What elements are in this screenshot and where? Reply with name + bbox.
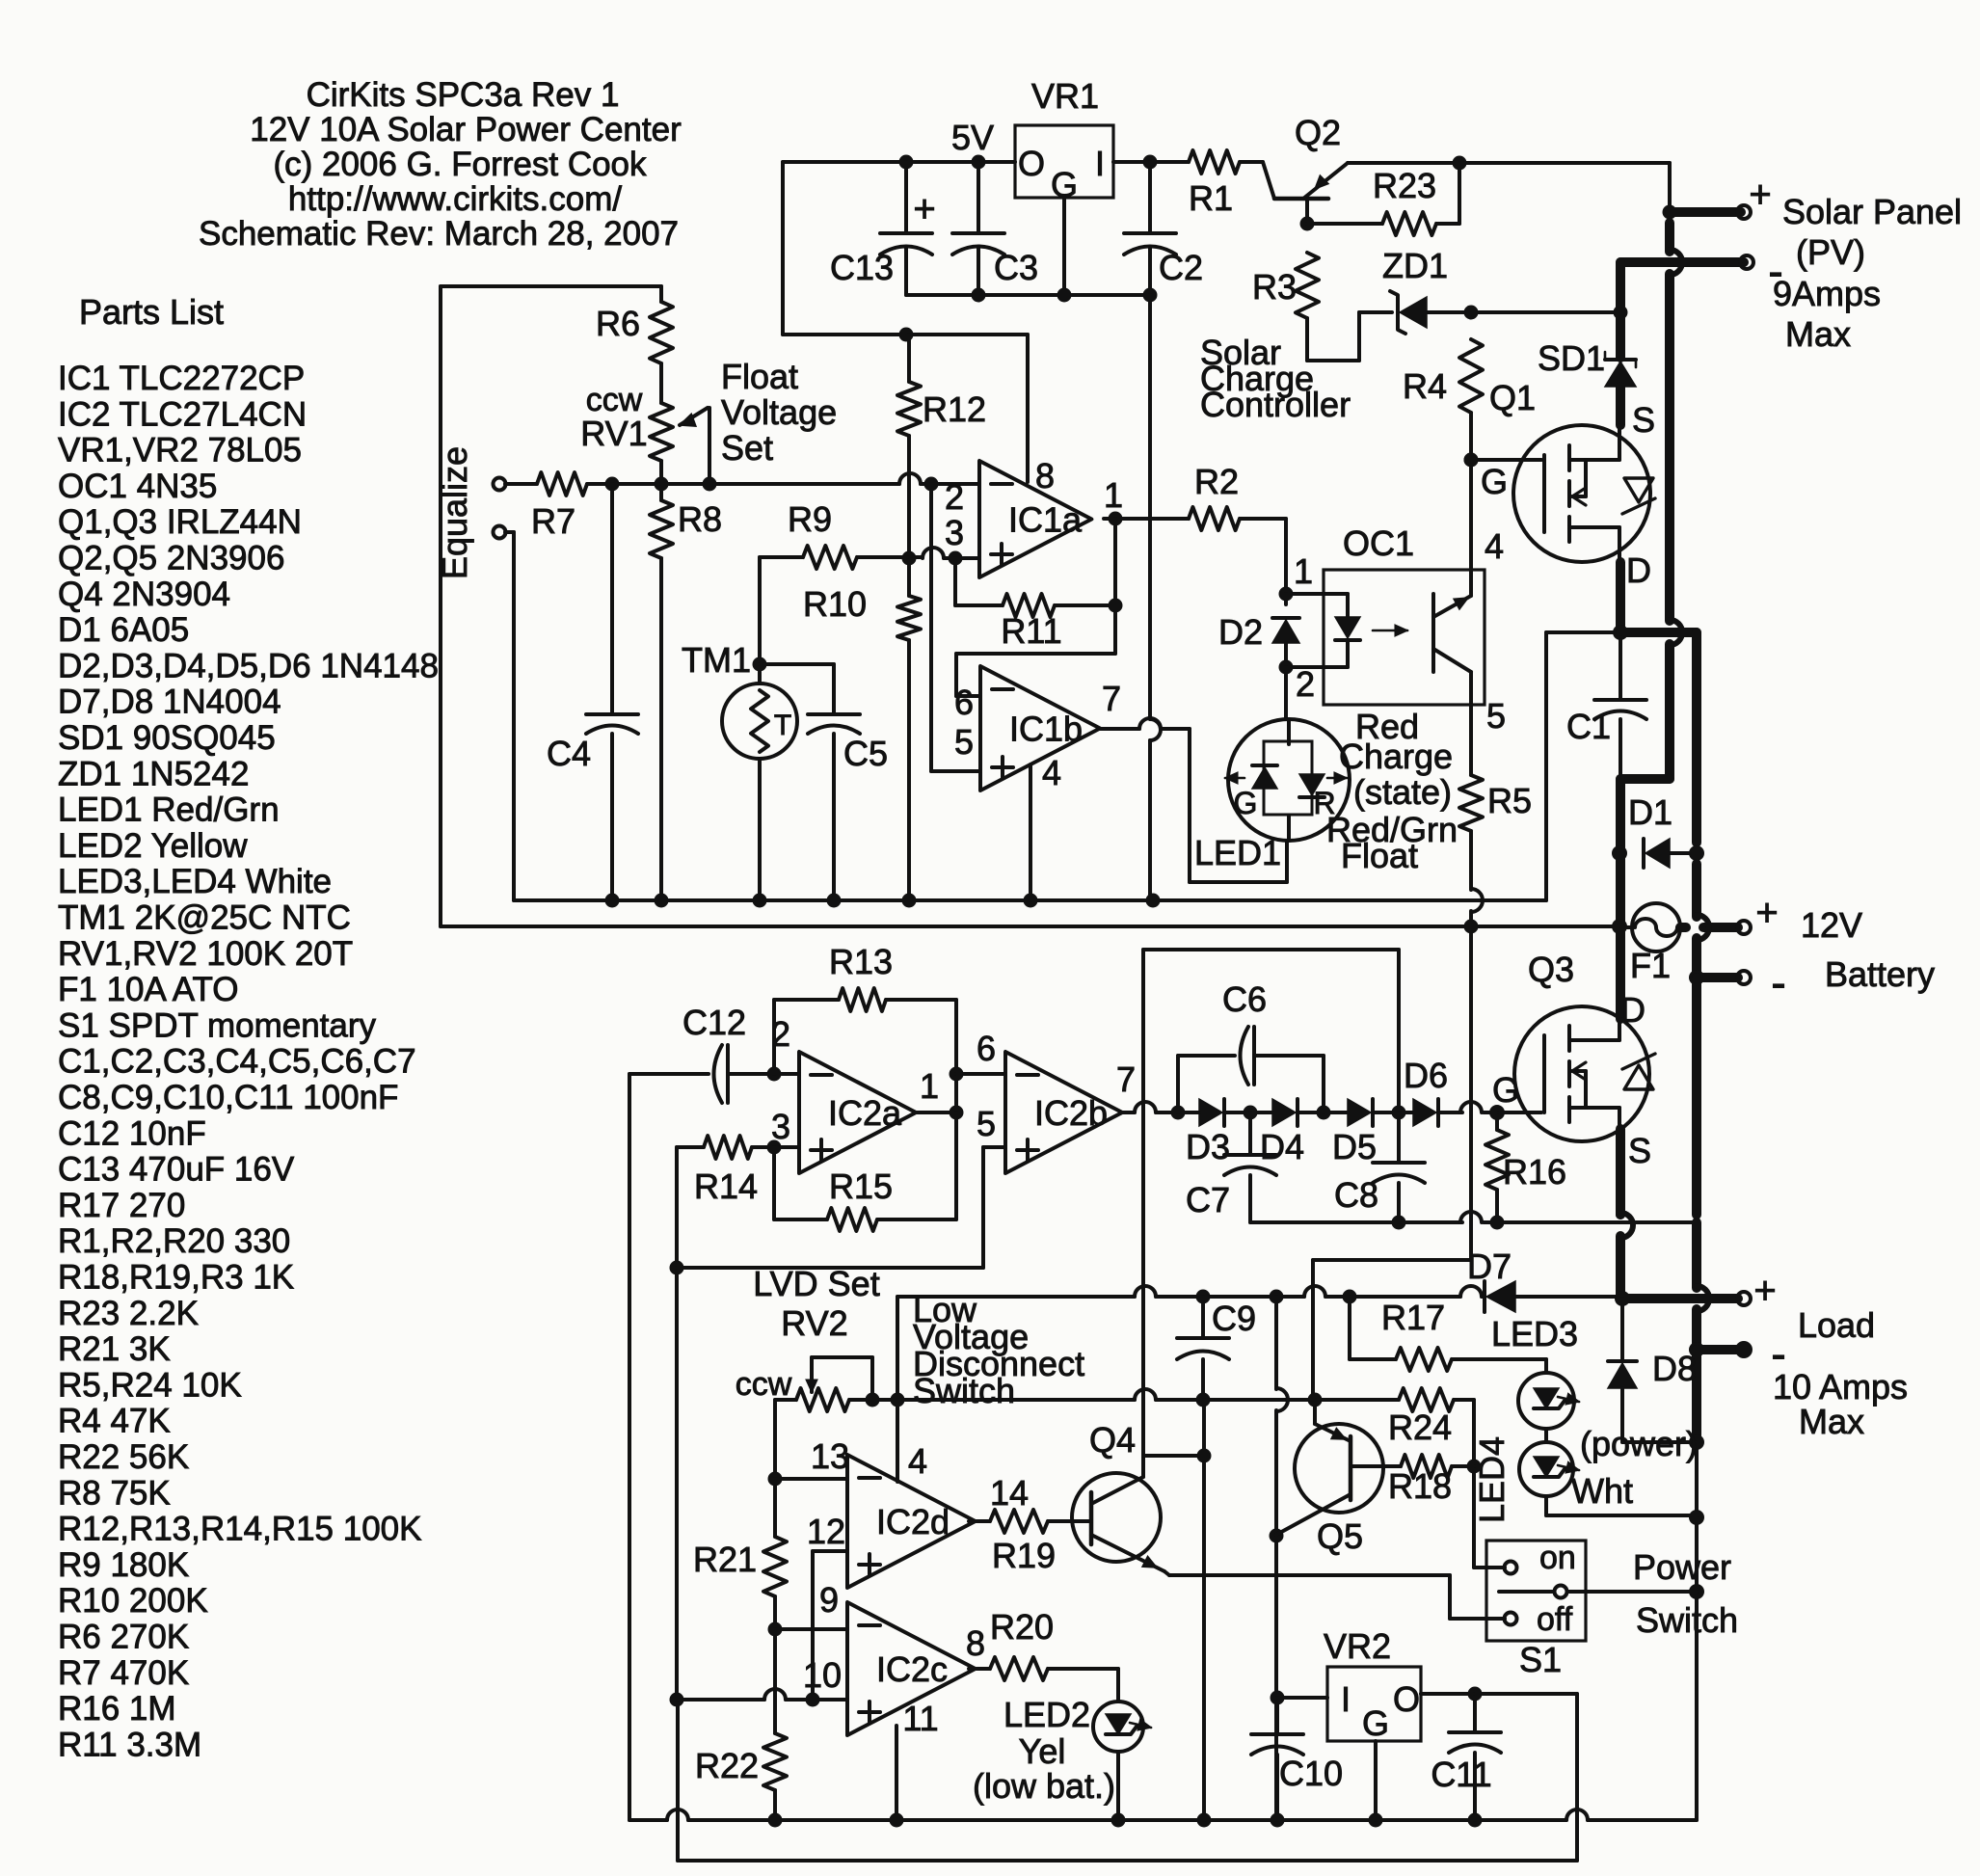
svg-text:(c) 2006 G. Forrest Cook: (c) 2006 G. Forrest Cook <box>273 146 647 183</box>
svg-text:R7 470K: R7 470K <box>58 1654 189 1692</box>
svg-text:http://www.cirkits.com/: http://www.cirkits.com/ <box>288 180 622 218</box>
svg-text:R21: R21 <box>693 1540 757 1579</box>
svg-text:Schematic Rev: March 28, 2007: Schematic Rev: March 28, 2007 <box>199 215 679 253</box>
svg-text:LED3,LED4 White: LED3,LED4 White <box>58 863 332 900</box>
svg-text:+: + <box>1755 892 1778 934</box>
svg-text:F1: F1 <box>1630 946 1671 985</box>
svg-text:VR2: VR2 <box>1324 1626 1391 1666</box>
svg-text:off: off <box>1537 1601 1573 1638</box>
svg-text:F1 10A ATO: F1 10A ATO <box>58 971 238 1008</box>
svg-text:R14: R14 <box>694 1166 758 1206</box>
svg-text:-: - <box>1771 957 1785 1007</box>
svg-text:C7: C7 <box>1186 1180 1230 1219</box>
svg-text:12V 10A Solar Power Center: 12V 10A Solar Power Center <box>250 111 682 148</box>
svg-text:+: + <box>1753 1270 1776 1312</box>
svg-text:I: I <box>1341 1679 1351 1719</box>
svg-text:Q1,Q3 IRLZ44N: Q1,Q3 IRLZ44N <box>58 503 302 541</box>
svg-text:G: G <box>1362 1703 1389 1743</box>
svg-text:S1: S1 <box>1519 1640 1562 1679</box>
svg-text:C8,C9,C10,C11 100nF: C8,C9,C10,C11 100nF <box>58 1079 398 1116</box>
svg-text:Parts List: Parts List <box>79 292 224 332</box>
svg-text:C5: C5 <box>843 734 888 773</box>
svg-text:Q5: Q5 <box>1317 1516 1363 1556</box>
svg-text:(low bat.): (low bat.) <box>973 1766 1115 1806</box>
svg-text:14: 14 <box>990 1473 1029 1513</box>
svg-text:11: 11 <box>902 1699 938 1738</box>
svg-text:LED2 Yellow: LED2 Yellow <box>58 827 248 865</box>
svg-text:IC1b: IC1b <box>1009 710 1083 749</box>
svg-text:1: 1 <box>920 1066 939 1106</box>
svg-text:IC2a: IC2a <box>828 1093 902 1133</box>
svg-text:D8: D8 <box>1652 1349 1697 1388</box>
svg-text:D2: D2 <box>1218 612 1263 652</box>
svg-text:O: O <box>1393 1679 1420 1719</box>
svg-text:R4: R4 <box>1403 366 1447 406</box>
svg-text:R5,R24 10K: R5,R24 10K <box>58 1366 242 1404</box>
svg-text:C9: C9 <box>1212 1299 1256 1338</box>
svg-text:8: 8 <box>1035 456 1055 496</box>
svg-text:7: 7 <box>1102 679 1121 718</box>
svg-text:T: T <box>774 710 791 741</box>
svg-text:Max: Max <box>1799 1402 1864 1441</box>
svg-text:R15: R15 <box>829 1166 893 1206</box>
svg-text:4: 4 <box>1042 753 1061 792</box>
svg-text:R4 47K: R4 47K <box>58 1403 171 1440</box>
svg-text:R23 2.2K: R23 2.2K <box>58 1295 199 1332</box>
svg-text:Voltage: Voltage <box>721 392 837 432</box>
svg-text:IC2 TLC27L4CN: IC2 TLC27L4CN <box>58 395 307 433</box>
svg-text:Q2,Q5 2N3906: Q2,Q5 2N3906 <box>58 540 284 577</box>
svg-text:R2: R2 <box>1194 462 1239 501</box>
svg-text:4: 4 <box>908 1441 927 1481</box>
svg-text:O: O <box>1018 144 1045 183</box>
svg-text:3: 3 <box>945 513 964 552</box>
svg-text:12V: 12V <box>1801 905 1862 945</box>
svg-text:Battery: Battery <box>1825 954 1935 994</box>
svg-text:LED3: LED3 <box>1491 1314 1578 1353</box>
svg-text:R18,R19,R3 1K: R18,R19,R3 1K <box>58 1259 294 1297</box>
svg-text:7: 7 <box>1116 1059 1136 1099</box>
svg-text:IC2c: IC2c <box>876 1649 948 1689</box>
svg-text:R23: R23 <box>1373 166 1436 205</box>
svg-text:R6 270K: R6 270K <box>58 1619 189 1656</box>
svg-text:R1,R2,R20 330: R1,R2,R20 330 <box>58 1222 290 1260</box>
svg-text:SD1: SD1 <box>1538 338 1605 378</box>
svg-text:Solar Panel: Solar Panel <box>1782 192 1962 231</box>
svg-text:D2,D3,D4,D5,D6 1N4148: D2,D3,D4,D5,D6 1N4148 <box>58 647 439 684</box>
svg-text:2: 2 <box>1296 664 1315 704</box>
svg-text:Q2: Q2 <box>1295 113 1341 152</box>
svg-text:9: 9 <box>819 1580 839 1620</box>
svg-text:I: I <box>1095 144 1105 183</box>
svg-text:D5: D5 <box>1332 1127 1377 1166</box>
svg-text:1: 1 <box>1294 551 1313 591</box>
svg-text:3: 3 <box>771 1107 790 1146</box>
svg-text:SD1 90SQ045: SD1 90SQ045 <box>58 719 276 757</box>
svg-text:Power: Power <box>1633 1547 1731 1587</box>
svg-text:C13: C13 <box>830 248 894 287</box>
svg-text:ZD1 1N5242: ZD1 1N5242 <box>58 755 249 792</box>
svg-text:R10: R10 <box>803 584 867 624</box>
svg-text:1: 1 <box>1104 475 1123 515</box>
svg-text:D1 6A05: D1 6A05 <box>58 611 189 649</box>
svg-text:LED2: LED2 <box>1003 1695 1090 1734</box>
svg-text:Q4 2N3904: Q4 2N3904 <box>58 576 230 613</box>
svg-text:R24: R24 <box>1388 1407 1452 1447</box>
svg-text:R7: R7 <box>531 501 575 541</box>
svg-text:Equalize: Equalize <box>435 446 474 579</box>
svg-text:R16 1M: R16 1M <box>58 1690 176 1728</box>
svg-text:TM1: TM1 <box>682 640 751 680</box>
svg-text:C1,C2,C3,C4,C5,C6,C7: C1,C2,C3,C4,C5,C6,C7 <box>58 1043 416 1081</box>
svg-text:2: 2 <box>945 477 964 517</box>
svg-text:R21 3K: R21 3K <box>58 1330 171 1368</box>
svg-text:(state): (state) <box>1353 772 1452 812</box>
svg-text:8: 8 <box>966 1623 985 1663</box>
svg-text:5: 5 <box>954 722 974 762</box>
svg-text:C1: C1 <box>1566 707 1611 746</box>
svg-text:R11: R11 <box>1001 611 1061 651</box>
svg-text:R22: R22 <box>695 1746 759 1785</box>
svg-text:IC2b: IC2b <box>1034 1093 1108 1133</box>
svg-text:Controller: Controller <box>1200 385 1351 424</box>
svg-text:-: - <box>1768 246 1782 296</box>
svg-text:5: 5 <box>977 1104 996 1143</box>
svg-text:on: on <box>1539 1540 1576 1576</box>
svg-text:Set: Set <box>721 428 773 468</box>
svg-text:R6: R6 <box>596 304 640 343</box>
svg-text:5: 5 <box>1486 696 1506 736</box>
svg-text:R10 200K: R10 200K <box>58 1582 208 1620</box>
svg-text:G: G <box>1481 462 1508 501</box>
svg-text:9Amps: 9Amps <box>1773 274 1881 313</box>
svg-text:C6: C6 <box>1222 979 1267 1019</box>
svg-text:OC1 4N35: OC1 4N35 <box>58 468 217 505</box>
svg-text:Q3: Q3 <box>1528 950 1574 989</box>
svg-text:+: + <box>913 188 935 230</box>
svg-text:Float: Float <box>721 357 798 396</box>
svg-text:R17: R17 <box>1381 1298 1445 1337</box>
svg-text:C11: C11 <box>1431 1755 1491 1794</box>
svg-text:C12: C12 <box>682 1003 746 1042</box>
svg-text:TM1 2K@25C NTC: TM1 2K@25C NTC <box>58 899 351 937</box>
svg-text:6: 6 <box>954 683 974 722</box>
svg-text:R22 56K: R22 56K <box>58 1438 189 1476</box>
svg-text:R1: R1 <box>1189 178 1233 218</box>
svg-text:C2: C2 <box>1159 248 1203 287</box>
svg-text:C12 10nF: C12 10nF <box>58 1114 206 1152</box>
svg-text:R9 180K: R9 180K <box>58 1546 189 1584</box>
svg-text:Q1: Q1 <box>1489 378 1536 417</box>
svg-text:+: + <box>1749 174 1771 216</box>
svg-text:S: S <box>1632 400 1655 440</box>
svg-text:LED1 Red/Grn: LED1 Red/Grn <box>58 791 280 829</box>
svg-text:Q4: Q4 <box>1089 1420 1136 1460</box>
svg-text:G: G <box>1234 786 1258 820</box>
svg-text:RV2: RV2 <box>781 1303 847 1343</box>
svg-text:R17 270: R17 270 <box>58 1187 185 1224</box>
svg-text:Wht: Wht <box>1571 1471 1633 1511</box>
svg-text:D4: D4 <box>1260 1127 1304 1166</box>
svg-text:R12: R12 <box>923 389 986 429</box>
svg-text:R5: R5 <box>1487 781 1532 820</box>
svg-text:VR1: VR1 <box>1031 76 1099 116</box>
svg-text:G: G <box>1492 1070 1519 1110</box>
svg-text:R8 75K: R8 75K <box>58 1474 171 1512</box>
svg-text:IC2d: IC2d <box>876 1502 950 1541</box>
svg-text:R13: R13 <box>829 942 893 981</box>
svg-text:R11 3.3M: R11 3.3M <box>58 1726 201 1763</box>
svg-text:OC1: OC1 <box>1343 523 1414 563</box>
svg-text:(PV): (PV) <box>1796 232 1865 272</box>
svg-text:R18: R18 <box>1388 1466 1452 1506</box>
svg-text:Float: Float <box>1341 836 1418 875</box>
svg-text:C8: C8 <box>1334 1175 1378 1215</box>
svg-text:10 Amps: 10 Amps <box>1773 1367 1908 1407</box>
svg-text:6: 6 <box>977 1029 996 1068</box>
svg-text:Load: Load <box>1798 1305 1875 1345</box>
svg-text:4: 4 <box>1485 526 1504 566</box>
svg-text:D6: D6 <box>1404 1056 1448 1095</box>
svg-text:S: S <box>1628 1131 1651 1170</box>
svg-text:R16: R16 <box>1503 1152 1566 1192</box>
svg-text:R8: R8 <box>678 499 722 539</box>
svg-text:D7: D7 <box>1467 1246 1512 1286</box>
svg-text:IC1a: IC1a <box>1008 500 1083 540</box>
svg-text:LVD Set: LVD Set <box>753 1264 879 1303</box>
svg-text:R3: R3 <box>1252 267 1297 307</box>
svg-text:12: 12 <box>807 1512 845 1551</box>
svg-text:Max: Max <box>1785 314 1851 354</box>
svg-text:RV1: RV1 <box>580 414 647 453</box>
svg-text:Yel: Yel <box>1019 1731 1066 1771</box>
svg-text:10: 10 <box>803 1655 842 1695</box>
svg-text:R9: R9 <box>788 499 832 539</box>
svg-text:C3: C3 <box>994 248 1038 287</box>
svg-text:RV1,RV2 100K 20T: RV1,RV2 100K 20T <box>58 935 353 973</box>
svg-text:ZD1: ZD1 <box>1382 246 1448 285</box>
svg-text:13: 13 <box>811 1436 849 1476</box>
svg-text:R20: R20 <box>990 1607 1054 1647</box>
svg-text:LED1: LED1 <box>1194 833 1281 872</box>
svg-text:C4: C4 <box>547 734 591 773</box>
svg-text:R12,R13,R14,R15 100K: R12,R13,R14,R15 100K <box>58 1511 421 1548</box>
svg-text:(power): (power) <box>1580 1424 1698 1463</box>
svg-text:CirKits SPC3a Rev 1: CirKits SPC3a Rev 1 <box>307 76 620 114</box>
svg-text:C13 470uF 16V: C13 470uF 16V <box>58 1151 295 1189</box>
svg-text:S1 SPDT momentary: S1 SPDT momentary <box>58 1006 377 1044</box>
svg-text:Switch: Switch <box>913 1371 1015 1410</box>
svg-text:D3: D3 <box>1186 1127 1230 1166</box>
svg-text:ccw: ccw <box>736 1366 792 1403</box>
svg-text:LED4: LED4 <box>1472 1436 1512 1523</box>
svg-text:Charge: Charge <box>1339 737 1453 776</box>
svg-text:5V: 5V <box>951 118 994 157</box>
svg-text:IC1 TLC2272CP: IC1 TLC2272CP <box>58 360 305 397</box>
svg-text:Switch: Switch <box>1636 1600 1738 1640</box>
svg-text:VR1,VR2 78L05: VR1,VR2 78L05 <box>58 432 302 469</box>
svg-text:D1: D1 <box>1628 792 1672 832</box>
svg-text:C10: C10 <box>1279 1754 1343 1793</box>
svg-text:D7,D8 1N4004: D7,D8 1N4004 <box>58 683 281 721</box>
svg-text:R19: R19 <box>992 1536 1056 1575</box>
svg-text:D: D <box>1626 550 1651 590</box>
